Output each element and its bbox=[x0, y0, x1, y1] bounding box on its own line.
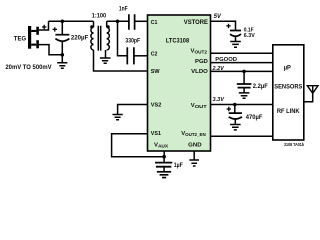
uP block body bbox=[273, 45, 304, 140]
svg-text:1nF: 1nF bbox=[119, 5, 128, 12]
capacitor CIN 220uF polarized bbox=[55, 21, 69, 55]
wire VOUT2_EN to uP bbox=[211, 135, 273, 137]
svg-text:VAUX: VAUX bbox=[154, 143, 168, 149]
svg-text:1µF: 1µF bbox=[174, 162, 183, 169]
wire TEG+ to top rail bbox=[39, 21, 49, 30]
wire VSTORE to 0.1F bbox=[211, 21, 236, 30]
svg-text:C1: C1 bbox=[151, 20, 158, 26]
svg-text:1:100: 1:100 bbox=[92, 12, 107, 19]
svg-text:PGOOD: PGOOD bbox=[215, 57, 237, 63]
ground below 1uF bbox=[157, 172, 171, 178]
transformer primary phase dot bbox=[90, 25, 93, 28]
plus sign of 220uF bbox=[53, 27, 57, 31]
capacitor 1uF at VAUX bbox=[155, 157, 172, 172]
wire VOUT to uP bbox=[211, 104, 273, 106]
transformer T1 primary winding bbox=[91, 21, 94, 50]
svg-text:220µF: 220µF bbox=[71, 35, 88, 42]
capacitor 2.2uF bbox=[237, 71, 252, 92]
svg-text:VOUT2_EN: VOUT2_EN bbox=[181, 131, 206, 137]
svg-text:TEG: TEG bbox=[14, 35, 26, 42]
node junction VAUX bbox=[162, 155, 166, 159]
plus sign of 0.1F bbox=[226, 24, 230, 28]
capacitor 330pF series bbox=[127, 47, 147, 64]
svg-text:VOUT2: VOUT2 bbox=[191, 48, 208, 54]
plus sign of 470uF bbox=[227, 107, 231, 111]
TEG source symbol bbox=[28, 26, 39, 49]
transformer secondary phase dot bbox=[107, 25, 110, 28]
svg-text:330pF: 330pF bbox=[125, 38, 140, 45]
svg-text:SW: SW bbox=[151, 69, 160, 75]
wire VAUX pin down bbox=[163, 151, 165, 157]
transformer core bbox=[98, 26, 100, 51]
svg-text:LTC3108: LTC3108 bbox=[166, 38, 189, 45]
wire TEG- to ground node bbox=[39, 45, 63, 55]
svg-text:PGD: PGD bbox=[195, 59, 208, 65]
svg-text:3108 TA01b: 3108 TA01b bbox=[284, 142, 304, 147]
wire node down to 330pF bbox=[118, 21, 128, 56]
wire VOUT2 to uP bbox=[211, 52, 273, 54]
svg-text:RF LINK: RF LINK bbox=[277, 108, 300, 115]
svg-text:VS2: VS2 bbox=[151, 103, 162, 109]
ground below transformer secondary bbox=[100, 58, 111, 63]
ground below 0.1F bbox=[230, 42, 241, 48]
capacitor 1nF series bbox=[129, 14, 148, 30]
svg-text:VSTORE: VSTORE bbox=[184, 19, 208, 26]
svg-text:5V: 5V bbox=[214, 13, 222, 20]
IC U1 LTC3108 body bbox=[148, 15, 211, 151]
wire secondary bottom to ground bbox=[105, 50, 107, 58]
antenna bbox=[304, 86, 318, 102]
ground at VS2 bbox=[113, 115, 123, 120]
svg-text:3.3V: 3.3V bbox=[213, 97, 226, 103]
node junction VOUT cap bbox=[233, 103, 237, 107]
svg-text:6.3V: 6.3V bbox=[244, 33, 255, 39]
svg-text:470µF: 470µF bbox=[246, 114, 263, 121]
svg-text:20mV TO 500mV: 20mV TO 500mV bbox=[5, 64, 52, 71]
wire VS1 to VAUX node bbox=[112, 134, 164, 157]
svg-text:C2: C2 bbox=[151, 52, 158, 58]
node junction secondary top bbox=[116, 20, 120, 24]
plus sign at TEG output bbox=[42, 25, 46, 29]
svg-text:µP: µP bbox=[284, 65, 291, 72]
transformer T1 secondary winding bbox=[107, 21, 110, 50]
svg-text:GND: GND bbox=[188, 143, 201, 149]
wire top rail to transformer primary bbox=[49, 20, 94, 22]
node junction bottom of C_IN bbox=[61, 53, 65, 57]
ground at GND pin bbox=[189, 160, 199, 166]
capacitor 0.1F polarized bbox=[230, 31, 241, 42]
capacitor 470uF polarized bbox=[229, 105, 242, 125]
node junction top of C_IN bbox=[61, 20, 65, 24]
wire secondary top to C1 node bbox=[107, 20, 129, 22]
ground below 2.2uF bbox=[239, 93, 250, 98]
wire PGD to uP bbox=[211, 62, 273, 64]
ground below 470uF bbox=[230, 125, 241, 130]
ground below 220uF bbox=[57, 55, 67, 69]
wire primary bottom to SW rail bbox=[94, 50, 148, 71]
svg-text:SENSORS: SENSORS bbox=[274, 84, 302, 90]
node junction VLDO cap bbox=[242, 70, 246, 74]
wire GND pin down bbox=[193, 151, 195, 160]
wire VLDO to uP bbox=[211, 70, 273, 72]
svg-text:VS1: VS1 bbox=[151, 131, 162, 137]
wire VS2 to ground bbox=[118, 105, 148, 115]
svg-text:VLDO: VLDO bbox=[191, 69, 208, 75]
svg-text:2.2µF: 2.2µF bbox=[253, 83, 268, 90]
svg-text:VOUT: VOUT bbox=[191, 103, 207, 109]
svg-text:2.2V: 2.2V bbox=[212, 66, 225, 72]
